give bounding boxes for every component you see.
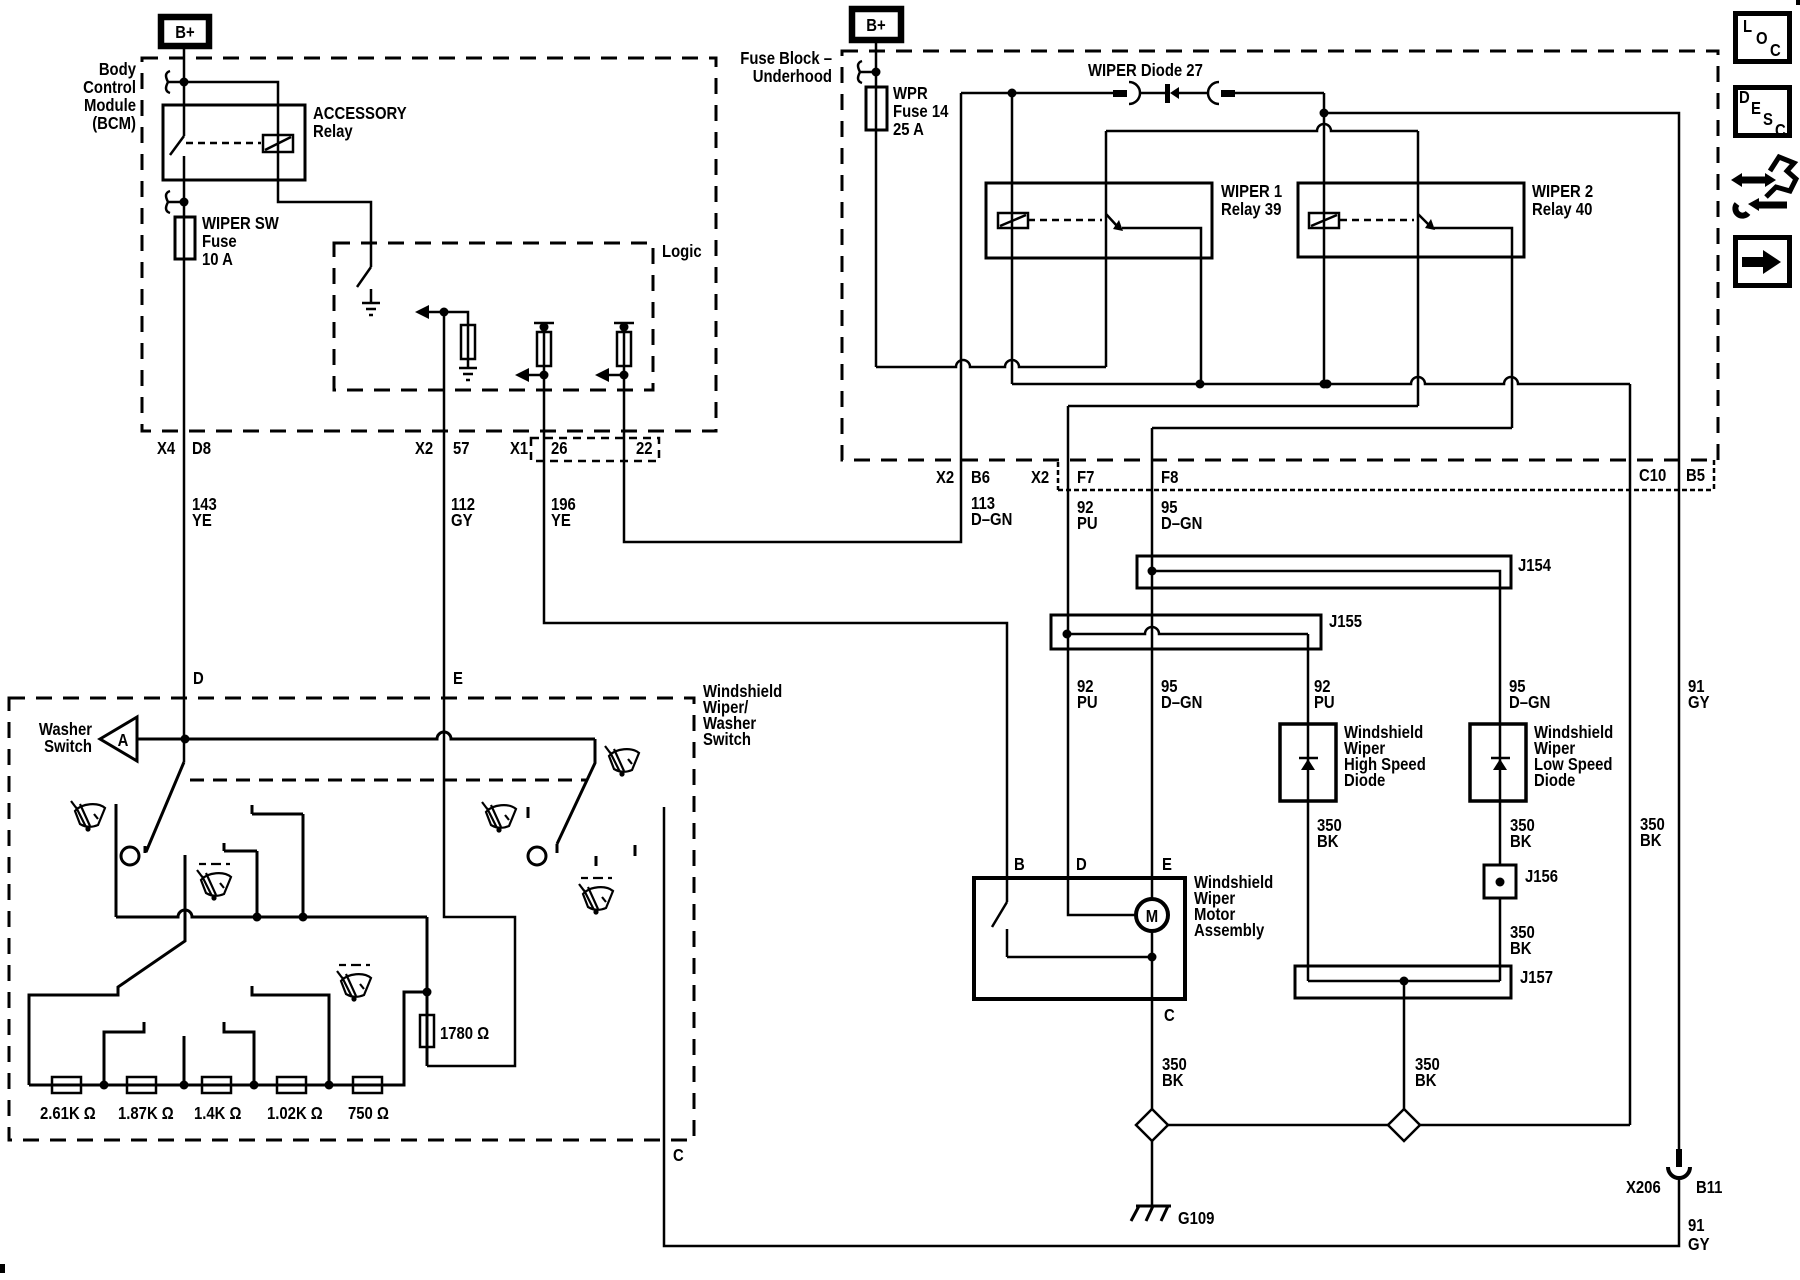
- svg-text:WPR: WPR: [893, 84, 928, 103]
- svg-text:D–GN: D–GN: [1509, 693, 1550, 712]
- svg-text:Diode: Diode: [1344, 771, 1385, 790]
- svg-text:57: 57: [453, 439, 470, 458]
- svg-text:PU: PU: [1077, 693, 1098, 712]
- svg-text:2.61K Ω: 2.61K Ω: [40, 1104, 96, 1123]
- svg-text:G109: G109: [1178, 1209, 1214, 1228]
- svg-text:D8: D8: [192, 439, 211, 458]
- svg-text:YE: YE: [551, 511, 571, 530]
- svg-text:O: O: [1756, 29, 1768, 48]
- svg-text:X2: X2: [415, 439, 433, 458]
- svg-text:1.4K Ω: 1.4K Ω: [194, 1104, 241, 1123]
- svg-text:X206: X206: [1626, 1178, 1661, 1197]
- svg-text:750 Ω: 750 Ω: [348, 1104, 389, 1123]
- svg-text:X2: X2: [1031, 468, 1049, 487]
- svg-text:BK: BK: [1640, 831, 1662, 850]
- svg-text:BK: BK: [1510, 939, 1532, 958]
- svg-text:1780 Ω: 1780 Ω: [440, 1024, 489, 1043]
- svg-text:D: D: [1739, 88, 1750, 107]
- svg-text:BK: BK: [1162, 1071, 1184, 1090]
- svg-text:PU: PU: [1077, 514, 1098, 533]
- svg-text:BK: BK: [1510, 832, 1532, 851]
- svg-text:Control: Control: [83, 78, 136, 97]
- svg-text:1.02K Ω: 1.02K Ω: [267, 1104, 323, 1123]
- svg-text:D–GN: D–GN: [971, 510, 1012, 529]
- svg-text:J156: J156: [1525, 867, 1558, 886]
- svg-text:PU: PU: [1314, 693, 1335, 712]
- svg-text:B: B: [1014, 855, 1025, 874]
- svg-text:WIPER 1: WIPER 1: [1221, 182, 1282, 201]
- svg-text:J157: J157: [1520, 968, 1553, 987]
- svg-text:BK: BK: [1415, 1071, 1437, 1090]
- svg-text:26: 26: [551, 439, 568, 458]
- svg-text:B+: B+: [866, 16, 885, 35]
- svg-text:(BCM): (BCM): [92, 114, 136, 133]
- svg-text:B+: B+: [175, 23, 194, 42]
- svg-text:1.87K Ω: 1.87K Ω: [118, 1104, 174, 1123]
- svg-text:C10: C10: [1639, 466, 1666, 485]
- svg-text:Switch: Switch: [703, 730, 751, 749]
- svg-text:B11: B11: [1696, 1178, 1722, 1197]
- svg-text:Logic: Logic: [662, 242, 702, 261]
- svg-text:E: E: [453, 669, 463, 688]
- svg-text:X4: X4: [157, 439, 175, 458]
- svg-text:D–GN: D–GN: [1161, 514, 1202, 533]
- svg-text:Fuse: Fuse: [202, 232, 237, 251]
- svg-text:C: C: [673, 1146, 684, 1165]
- svg-text:GY: GY: [1688, 1235, 1710, 1254]
- svg-text:J155: J155: [1329, 612, 1362, 631]
- svg-text:Assembly: Assembly: [1194, 921, 1264, 940]
- svg-text:C: C: [1164, 1006, 1175, 1025]
- svg-text:B5: B5: [1686, 466, 1705, 485]
- svg-text:Body: Body: [99, 60, 136, 79]
- svg-text:91: 91: [1688, 1216, 1705, 1235]
- svg-text:D: D: [193, 669, 204, 688]
- svg-text:Relay: Relay: [313, 122, 353, 141]
- svg-text:Underhood: Underhood: [753, 67, 832, 86]
- svg-text:X1: X1: [510, 439, 528, 458]
- svg-text:WIPER SW: WIPER SW: [202, 214, 279, 233]
- svg-text:D–GN: D–GN: [1161, 693, 1202, 712]
- svg-text:YE: YE: [192, 511, 212, 530]
- svg-text:Module: Module: [84, 96, 136, 115]
- svg-text:F8: F8: [1161, 468, 1178, 487]
- svg-text:C: C: [1775, 121, 1786, 140]
- svg-text:WIPER Diode 27: WIPER Diode 27: [1088, 61, 1203, 80]
- svg-text:Switch: Switch: [44, 737, 92, 756]
- svg-text:ACCESSORY: ACCESSORY: [313, 104, 407, 123]
- svg-text:Relay 40: Relay 40: [1532, 200, 1592, 219]
- svg-text:B6: B6: [971, 468, 990, 487]
- svg-text:Fuse 14: Fuse 14: [893, 102, 948, 121]
- svg-text:Relay 39: Relay 39: [1221, 200, 1281, 219]
- svg-text:Fuse Block –: Fuse Block –: [740, 49, 832, 68]
- svg-text:D: D: [1076, 855, 1087, 874]
- svg-text:F7: F7: [1077, 468, 1094, 487]
- svg-text:L: L: [1743, 17, 1752, 36]
- svg-text:X2: X2: [936, 468, 954, 487]
- svg-text:E: E: [1162, 855, 1172, 874]
- svg-text:E: E: [1751, 99, 1761, 118]
- svg-text:GY: GY: [451, 511, 473, 530]
- svg-text:Diode: Diode: [1534, 771, 1575, 790]
- svg-text:M: M: [1146, 907, 1158, 926]
- svg-text:22: 22: [636, 439, 653, 458]
- svg-text:25 A: 25 A: [893, 120, 924, 139]
- svg-text:J154: J154: [1518, 556, 1551, 575]
- svg-text:10 A: 10 A: [202, 250, 233, 269]
- svg-text:BK: BK: [1317, 832, 1339, 851]
- svg-text:A: A: [118, 731, 129, 750]
- svg-text:GY: GY: [1688, 693, 1710, 712]
- svg-text:C: C: [1770, 41, 1781, 60]
- svg-text:S: S: [1763, 110, 1773, 129]
- svg-text:WIPER 2: WIPER 2: [1532, 182, 1593, 201]
